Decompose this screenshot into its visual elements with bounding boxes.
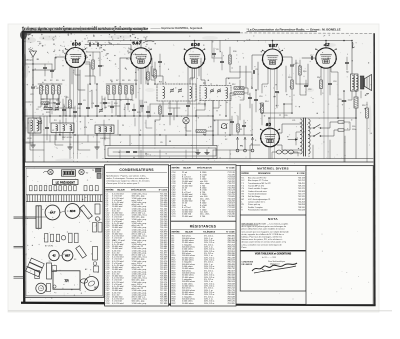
dial screw left	[48, 169, 53, 174]
wire: V1 screen feed	[86, 62, 91, 84]
svg-text:C1: C1	[87, 41, 89, 43]
svg-text:Transfo d’alimentation: Transfo d’alimentation	[248, 192, 267, 195]
wire: antenna link from border	[26, 63, 53, 65]
wiring traces plan	[41, 216, 46, 218]
svg-text:716.984: 716.984	[227, 216, 235, 218]
power transformer TR plan	[53, 271, 80, 289]
antenna coil L1	[28, 118, 41, 133]
tube 6A7 plan	[45, 205, 60, 220]
svg-text:C31: C31	[144, 102, 147, 104]
svg-text:C17: C17	[310, 55, 313, 57]
svg-text:CP2: CP2	[30, 94, 34, 96]
tube 80 plan	[85, 277, 99, 291]
svg-text:C3: C3	[83, 100, 85, 102]
svg-text:A2: A2	[85, 268, 87, 271]
svg-text:DÉSIGNATION: DÉSIGNATION	[258, 172, 271, 175]
svg-text:N° CODE: N° CODE	[159, 190, 168, 192]
capacitor C18 cathode bypass	[328, 82, 331, 84]
wire: V2 grid	[120, 57, 131, 59]
wire: grid bus left	[38, 83, 62, 85]
band coil L3 box	[95, 125, 114, 134]
wire: misc left lower	[49, 116, 51, 123]
resistor R26 lamp series	[196, 130, 206, 132]
wire: T2 in/out	[201, 58, 205, 86]
capacitor C7 IF bypass	[186, 104, 189, 106]
svg-text:HP: HP	[366, 94, 370, 96]
svg-text:de ce type ne se prêtent guère: de ce type ne se prêtent guère aux échan…	[242, 225, 287, 228]
terminal 1	[236, 149, 239, 152]
capacitor C4 electrolytic	[95, 104, 99, 106]
wire: coil taps	[104, 134, 106, 141]
tube 80 envelope	[261, 128, 280, 147]
resistor R13 diode load	[234, 92, 244, 94]
resistances divider	[171, 220, 236, 222]
wire: HT secondary to 80	[277, 124, 301, 133]
svg-text:5 700: 5 700	[200, 216, 206, 218]
resistor R16 plate load	[299, 66, 301, 75]
svg-text:liaisons avec les prises, PU,: liaisons avec les prises, PU, et le sché…	[242, 238, 283, 241]
capacitor C10	[254, 98, 257, 100]
svg-text:R7: R7	[116, 80, 118, 82]
capacitor C19 filter	[342, 99, 346, 101]
choke CH plan	[36, 283, 46, 293]
twisted mains cord	[276, 150, 294, 154]
resistor R4	[58, 86, 61, 95]
svg-text:céramiques par rapport au châs: céramiques par rapport au châssis; les t…	[106, 180, 149, 183]
tube 42 plan	[49, 250, 59, 260]
output transformer	[351, 74, 359, 91]
wire: mid distribution bus	[25, 115, 213, 117]
svg-text:C29: C29	[102, 99, 105, 101]
field coil excitation	[354, 97, 358, 108]
capacitor C9	[248, 96, 251, 98]
resistor R23	[44, 107, 52, 109]
svg-text:L: L	[181, 116, 182, 118]
wire: V5 screen	[331, 67, 338, 96]
wire: left section lower rail	[26, 141, 101, 143]
volume potentiometer R14	[261, 103, 264, 113]
wire: V1 screen bypass net	[62, 116, 64, 123]
wire: under T1-T3 extra links	[65, 96, 67, 116]
wire: left section links	[38, 99, 41, 107]
capacitor C15 coupling	[290, 64, 293, 66]
wire: bottom ground bus full width	[25, 161, 373, 163]
svg-text:10%, 1/2 w.: 10%, 1/2 w.	[204, 303, 215, 305]
wire: IF area verticals	[162, 101, 164, 116]
svg-text:R15: R15	[288, 77, 291, 79]
wire: V5 plate to OPT	[325, 41, 327, 48]
svg-text:REPÈRE: REPÈRE	[172, 167, 181, 170]
wire: verticals to ground bus	[43, 116, 45, 162]
svg-text:R14: R14	[265, 101, 268, 103]
resistor R20 IF cathode	[159, 106, 161, 114]
svg-text:pièces détachées d’un autre mo: pièces détachées d’un autre modèle; le s…	[242, 228, 286, 231]
wire: heater bus partial	[213, 149, 252, 151]
terminal 3	[251, 149, 254, 152]
wire: grid bus center	[106, 83, 134, 85]
wire: AVC feeds down	[229, 104, 231, 135]
svg-text:écrite, rappeler les chiffres: écrite, rappeler les chiffres du N° CODE…	[242, 233, 285, 236]
resistor R11 osc grid	[147, 72, 149, 80]
svg-text:C21: C21	[292, 120, 295, 122]
capacitor C12	[275, 90, 278, 92]
wire: V1 cathode drop	[69, 66, 71, 100]
svg-text:0,5 4 50 mtd: 0,5 4 50 mtd	[112, 302, 123, 305]
wire: T3-T4 top area	[211, 41, 213, 59]
capacitor C30	[62, 108, 65, 110]
tube 42 envelope	[316, 48, 336, 68]
svg-text:REPÈRE: REPÈRE	[241, 172, 249, 175]
svg-text:VALEUR: VALEUR	[117, 189, 125, 192]
svg-text:Potentiomètre 500.000: Potentiomètre 500.000	[248, 209, 267, 212]
svg-text:R22: R22	[41, 99, 44, 101]
capacitor C41	[73, 110, 76, 112]
svg-text:N° CODE: N° CODE	[226, 168, 235, 170]
svg-text:R9: R9	[128, 80, 130, 82]
capacitor C25 tuning	[50, 69, 53, 71]
svg-text:TR: TR	[64, 279, 69, 283]
svg-text:SPÉCIFICATION: SPÉCIFICATION	[197, 167, 212, 170]
tone shaft	[14, 276, 26, 278]
terminal 2	[244, 149, 247, 152]
tube 6D6 envelope	[184, 48, 204, 68]
svg-text:MATÉRIEL DIVERS: MATÉRIEL DIVERS	[257, 166, 289, 171]
wire: heater run	[250, 145, 260, 159]
capacitor C13 tone	[126, 150, 129, 152]
svg-text:R18: R18	[362, 105, 365, 107]
resistor R7	[113, 86, 115, 95]
condensateurs table box	[105, 165, 169, 306]
oscillator coil L2 box	[51, 123, 74, 133]
capacitor CP antenna series	[31, 86, 34, 88]
header title underline	[247, 31, 318, 33]
resistor R8	[119, 86, 121, 95]
svg-text:REPÈRE: REPÈRE	[172, 230, 181, 233]
svg-text:S1: S1	[240, 129, 242, 131]
svg-text:R4: R4	[62, 80, 64, 82]
svg-text:R25: R25	[137, 112, 140, 114]
trimmer CB padder	[55, 108, 58, 110]
model name plate LE PRESIDENT	[53, 180, 79, 185]
svg-text:Paris.: Paris.	[242, 246, 248, 249]
trimmer CT left	[38, 122, 41, 124]
tube 6B7 plan	[62, 250, 73, 261]
wire: V4 pin drops	[262, 69, 268, 94]
wire: output area drops	[348, 91, 352, 100]
svg-text:R10: R10	[134, 80, 137, 82]
svg-text:———— Imprimerie CHANTREL, A: ———— Imprimerie CHANTREL, Argenteuil.	[151, 27, 204, 30]
svg-text:RÉSISTANCES: RÉSISTANCES	[190, 224, 217, 229]
capacitor C3 bypass	[78, 102, 81, 104]
svg-text:42: 42	[51, 253, 56, 257]
wire: left lower mesh	[30, 120, 44, 150]
resistor R2	[46, 86, 49, 95]
wire: left vertical rail	[25, 36, 27, 162]
terminal block row	[30, 186, 33, 191]
IF can diagonal 2	[76, 246, 87, 258]
wire: top HT bus	[88, 40, 344, 42]
wire: lamp leads	[185, 124, 187, 135]
capacitor C14	[230, 120, 233, 122]
wire: mains wiring	[309, 127, 315, 129]
speaker plug	[80, 279, 87, 283]
resistor R18 bleeder	[366, 108, 369, 118]
trimmer CA tuning	[44, 105, 47, 107]
svg-text:6A7: 6A7	[50, 210, 56, 214]
wire: T1 connections	[152, 58, 163, 84]
tube 6D6 envelope	[66, 48, 86, 68]
svg-text:470: 470	[84, 127, 87, 129]
padder trimmer CC	[99, 110, 102, 112]
svg-text:R11: R11	[153, 69, 156, 71]
ground: tone caps	[197, 150, 199, 153]
wire: V3 screen drop	[187, 65, 189, 104]
capacitor C48	[110, 105, 113, 107]
svg-text:C11: C11	[255, 69, 258, 71]
svg-text:R6: R6	[110, 80, 112, 82]
wire: coupling link	[85, 44, 89, 46]
wire: cluster2 bottom link	[108, 99, 132, 101]
svg-text:C44 R20 0,1: C44 R20 0,1	[100, 138, 110, 140]
corner bracket parts	[96, 169, 102, 173]
chassis apron comb	[26, 194, 103, 196]
capacitor C32	[98, 64, 101, 66]
scan blotches	[24, 37, 36, 43]
IF transformer T2	[200, 86, 231, 101]
svg-text:H.-P. électrodynamique 21: H.-P. électrodynamique 21	[248, 198, 270, 201]
svg-text:R24: R24	[114, 103, 117, 105]
svg-text:R30: R30	[233, 51, 236, 53]
resistor R21	[237, 124, 239, 132]
signature flourish	[252, 263, 297, 271]
wire: audio coupling run	[283, 104, 285, 118]
tube 6A7 envelope	[131, 48, 151, 68]
tube 6D6 plan	[65, 204, 80, 219]
svg-text:R12: R12	[232, 84, 235, 86]
svg-text:VALEUR: VALEUR	[185, 230, 193, 233]
svg-text:R8: R8	[122, 80, 124, 82]
svg-text:PU: PU	[240, 146, 243, 148]
capacitor C35	[220, 60, 223, 62]
resistor R1	[40, 86, 43, 95]
capacitor C54	[146, 110, 149, 112]
header top rule (heavy left)	[22, 31, 150, 34]
mains switch	[314, 125, 320, 129]
wire: V1 heater drops	[71, 67, 73, 84]
svg-text:g: g	[86, 55, 87, 57]
scan frame left border	[22, 31, 26, 302]
wire: V2 plate to IFT1	[140, 41, 142, 48]
chassis layout outer box	[25, 167, 105, 297]
svg-text:75: 75	[92, 170, 94, 172]
mid small parts row	[45, 234, 48, 243]
svg-text:6B7: 6B7	[65, 253, 70, 257]
capacitor C22	[242, 124, 245, 126]
resistor R27 interstage	[92, 60, 94, 69]
arrow right	[288, 139, 297, 141]
svg-text:6B7: 6B7	[269, 43, 278, 48]
svg-text:males; 2 céramiques. Tensions: males; 2 céramiques. Tensions non indiqu…	[106, 177, 148, 180]
svg-text:dessus avant remise en service: dessus avant remise en service d’un post…	[242, 241, 287, 244]
table column two box	[171, 165, 236, 306]
resistor R10	[131, 86, 133, 95]
power transformer TR	[302, 118, 304, 156]
svg-text:C2: C2	[95, 41, 97, 43]
IF can diagonal	[80, 205, 93, 219]
tube 6B7 envelope	[263, 49, 283, 69]
resistor R5 cathode V1	[69, 100, 72, 108]
rect small bottom	[47, 284, 51, 292]
wire: vertical feed bus	[212, 101, 214, 146]
tone switch assembly box	[105, 146, 217, 159]
svg-text:717.693: 717.693	[160, 303, 168, 305]
svg-text:Self de filtrage: Self de filtrage	[248, 195, 260, 198]
wire: detector band verticals	[245, 66, 247, 88]
resistor R22	[41, 102, 49, 104]
svg-text:R3: R3	[56, 80, 58, 82]
wire: IF returns	[196, 101, 205, 117]
capacitor C34	[212, 52, 215, 54]
capacitor C5 screen	[86, 106, 89, 108]
scan frame bottom border	[21, 302, 106, 305]
svg-text:6D6: 6D6	[72, 42, 81, 47]
svg-text:C16: C16	[308, 89, 311, 91]
resistor R17 cathode bias	[320, 80, 323, 89]
wire: drops to bus	[69, 150, 71, 159]
voir tableaux heavy rule	[241, 250, 306, 252]
resistor R3	[52, 86, 55, 95]
right side parts	[93, 247, 98, 261]
wire: B+ runs right section	[290, 117, 338, 119]
svg-text:N° CODE: N° CODE	[226, 231, 235, 233]
ground: band coil	[96, 144, 98, 147]
svg-text:C8: C8	[216, 49, 218, 51]
tuning gang	[36, 206, 41, 229]
electrolytic block	[26, 258, 45, 277]
svg-text:130v: 130v	[352, 129, 356, 131]
empty panel bottom right	[306, 166, 373, 305]
avc bus junction dots	[59, 134, 60, 135]
svg-text:N° CODE: N° CODE	[297, 173, 306, 175]
capacitor C16	[304, 84, 307, 86]
svg-text:C20: C20	[284, 115, 287, 117]
svg-text:Pour Schémathèque: Pour Schémathèque	[268, 260, 285, 263]
svg-text:R5: R5	[66, 97, 68, 99]
svg-text:NOTA: NOTA	[268, 217, 279, 221]
capacitor C34	[126, 102, 129, 104]
ground: osc coil	[69, 144, 71, 147]
wire: V2 bottom drops	[140, 68, 142, 84]
wire: V5 cathode	[320, 67, 322, 81]
junction dots	[75, 40, 77, 42]
resistor R12 diode load	[234, 87, 244, 89]
capacitor C2 coupling	[96, 43, 98, 46]
svg-text:AVC: AVC	[203, 133, 207, 136]
wire: mid-left links	[49, 103, 55, 110]
capacitor C18b	[345, 61, 348, 63]
svg-text:C15: C15	[295, 63, 298, 65]
capacitor C11 grid	[252, 71, 254, 74]
svg-text:C10: C10	[259, 96, 262, 98]
side part column	[95, 204, 100, 214]
svg-text:6D6: 6D6	[191, 42, 200, 47]
svg-text:R17: R17	[317, 77, 320, 79]
header masthead smudged text	[22, 27, 148, 30]
wire: V2 area drops	[135, 84, 137, 98]
wire: S1 links	[217, 120, 219, 135]
wire: heater verticals to bottom bus	[73, 69, 75, 159]
wire: AVC bus	[30, 134, 252, 136]
capacitor C24 tuning	[43, 66, 46, 68]
svg-text:C30: C30	[130, 100, 133, 102]
antenna	[30, 51, 37, 57]
svg-text:C5: C5	[168, 103, 170, 105]
wire: mains lower	[272, 152, 276, 159]
svg-text:C19: C19	[338, 99, 341, 101]
tuning shaft	[14, 216, 37, 218]
filter choke vertical	[35, 271, 40, 279]
wire: V2 cathode resistor drop	[135, 67, 137, 85]
wire: V4 diode leads	[252, 55, 263, 70]
switch S1 wafer	[221, 123, 226, 128]
scanned paper background	[8, 24, 379, 312]
wire: V3 plate	[194, 41, 196, 48]
svg-text:osc: osc	[90, 119, 93, 121]
svg-text:C13: C13	[145, 154, 148, 156]
wire: lower chassis bus	[105, 158, 373, 160]
ground: antenna coil	[32, 142, 34, 145]
svg-text:REPÈRE: REPÈRE	[106, 189, 115, 192]
svg-text:1.500 volts, pap.: 1.500 volts, pap.	[132, 302, 147, 305]
bottom panels top rule	[104, 164, 374, 166]
svg-text:781.995: 781.995	[227, 303, 235, 305]
capacitor C54	[56, 102, 59, 104]
capacitor C17 grid	[310, 56, 312, 59]
svg-text:S2: S2	[225, 139, 227, 141]
svg-text:TOLÉRANCE: TOLÉRANCE	[203, 230, 216, 233]
svg-text:B7 ON P4: B7 ON P4	[45, 246, 53, 248]
capacitor C40	[132, 108, 135, 110]
wire: osc coil leads	[55, 133, 57, 141]
resistor R9	[125, 86, 127, 95]
dial screw right	[79, 169, 84, 174]
svg-text:“La Documentation du Revendeur: “La Documentation du Revendeur-Radio. — …	[247, 27, 341, 31]
junction dots mid-left	[54, 102, 55, 103]
wire: 80 output filter	[269, 118, 290, 130]
svg-text:tableau. Pour tous les montage: tableau. Pour tous les montages, vérifie…	[242, 236, 282, 239]
wire: detector area	[225, 101, 227, 117]
svg-text:10.000 ohms: 10.000 ohms	[182, 303, 194, 305]
resistor R15 grid leak	[291, 80, 293, 89]
wire: cluster drop links	[41, 98, 59, 100]
svg-text:25: 25	[122, 125, 124, 127]
svg-text:R1: R1	[44, 80, 46, 82]
svg-text:CONDENSATEURS: CONDENSATEURS	[119, 168, 154, 172]
svg-text:735.628: 735.628	[298, 210, 305, 212]
wire: V4/V5 row joins	[262, 112, 292, 114]
resistor R6	[107, 86, 109, 95]
materiel divers box	[240, 165, 306, 291]
capacitor C41	[103, 101, 106, 103]
svg-text:R2: R2	[50, 80, 52, 82]
resistor R28	[229, 55, 231, 64]
svg-text:d'essai pour l'él. et les autr: d'essai pour l'él. et les autres pour 2.	[106, 182, 140, 185]
capacitor C48	[140, 104, 143, 106]
wire: V3 heater drops	[198, 66, 200, 76]
svg-text:LE PRÉSIDENT: LE PRÉSIDENT	[56, 181, 76, 184]
wire: V1 plate to top bus	[75, 41, 77, 48]
svg-text:DE LIAISON: DE LIAISON	[242, 263, 253, 266]
